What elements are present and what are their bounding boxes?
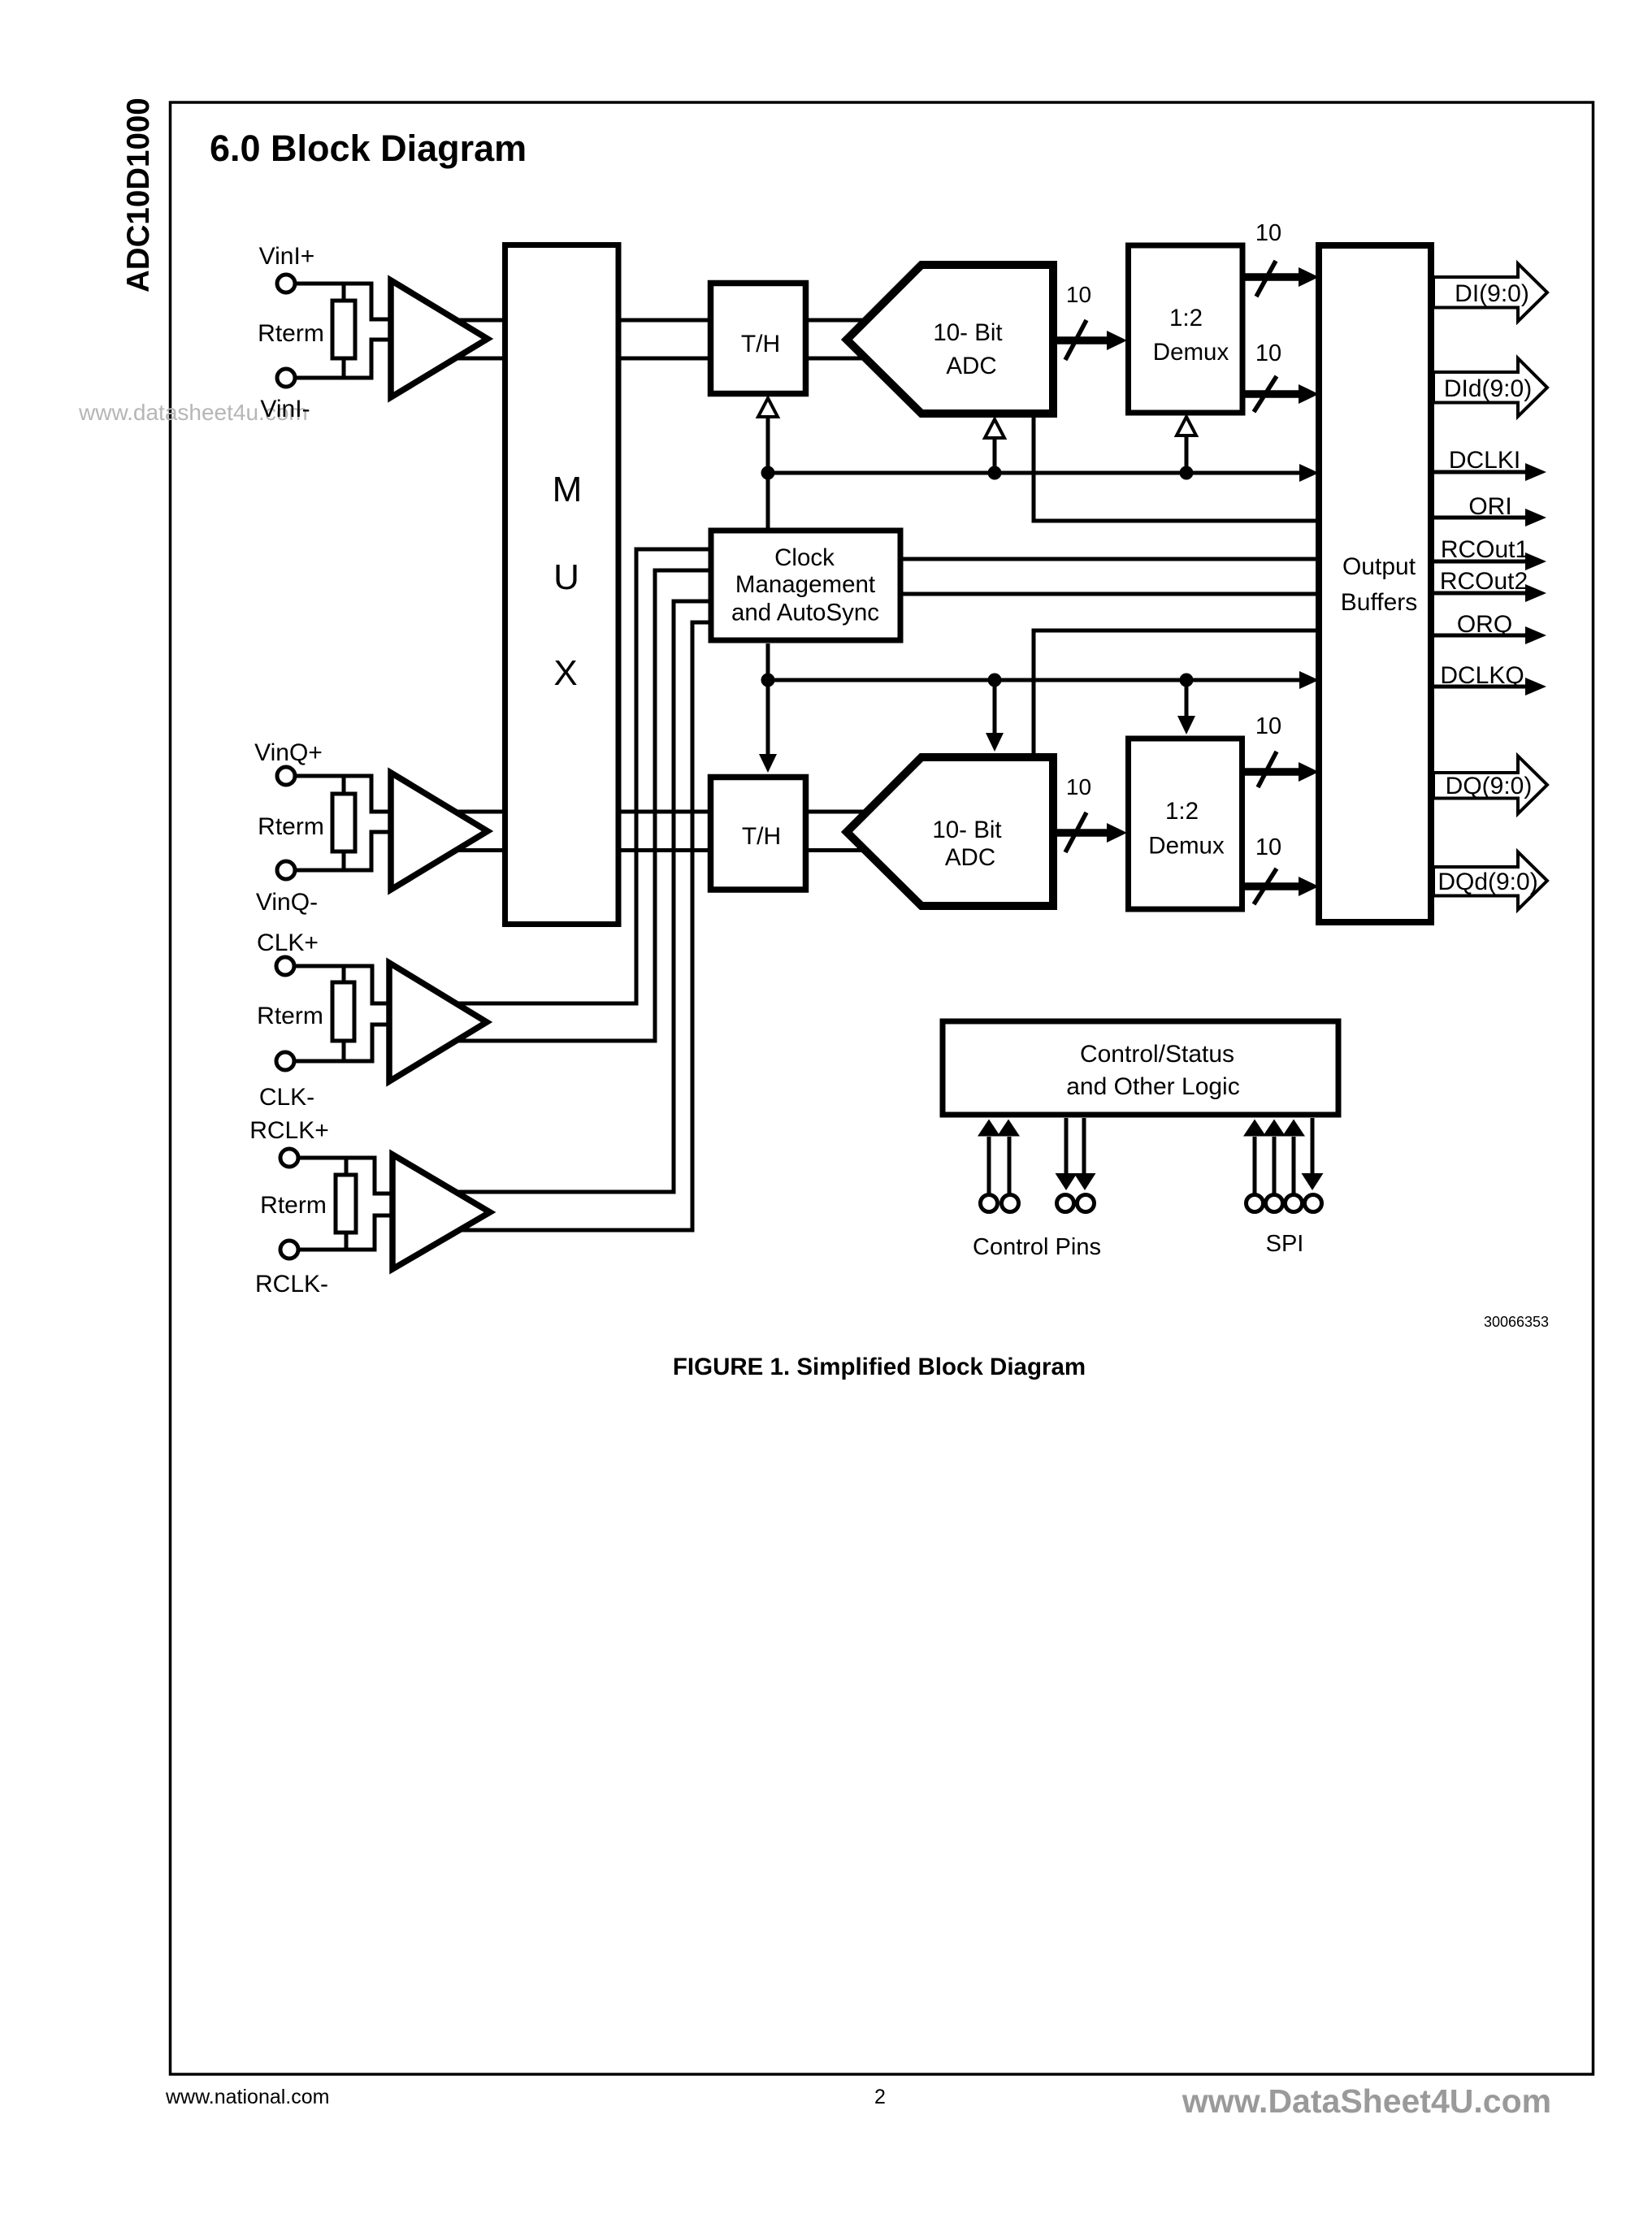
arrowhead ORQ output: [1525, 626, 1546, 644]
resistor R1 Rterm (VinI): [332, 301, 355, 358]
wire Rterm R4 bottom lead: [345, 1233, 349, 1250]
svg-text:ADC: ADC: [946, 353, 996, 379]
arrowhead clock into Demux Q: [1177, 716, 1195, 734]
svg-text:Rterm: Rterm: [257, 1003, 323, 1029]
terminal RCLK-: [280, 1241, 298, 1259]
arrowhead bus into Demux Q: [1107, 823, 1127, 843]
arrowhead Demux Q lower bus into OB: [1299, 877, 1319, 896]
svg-text:10: 10: [1255, 220, 1281, 246]
wire Rterm R1 bottom lead: [342, 358, 346, 378]
svg-text:DCLKI: DCLKI: [1449, 447, 1520, 474]
svg-text:Output: Output: [1342, 553, 1416, 580]
terminal VinQ+: [277, 767, 295, 785]
wire SPI 1: [1253, 1137, 1257, 1194]
svg-text:RCOut1: RCOut1: [1441, 536, 1528, 563]
svg-text:10: 10: [1255, 713, 1281, 739]
wire VinQ- to buffer A2: [296, 832, 391, 870]
arrowhead clock into ADC I: [985, 419, 1004, 438]
wire ADC I clock branch: [993, 435, 997, 473]
slash Demux I upper: [1256, 261, 1276, 297]
watermark www.datasheet4u.com: [78, 400, 308, 425]
svg-text:VinI+: VinI+: [259, 243, 315, 270]
figure number 30066353: [1484, 1314, 1549, 1330]
svg-text:RCOut2: RCOut2: [1440, 568, 1528, 595]
node DCLKQ at Demux Q: [1180, 674, 1194, 687]
footer right www.DataSheet4U.com: [1182, 2082, 1551, 2120]
bus Demux Q out lower: [1242, 882, 1302, 890]
bus Demux I out upper: [1242, 273, 1302, 281]
wire RCLK buffer out lower to clock mgmt: [459, 622, 715, 1230]
arrowhead Demux Q upper bus into OB: [1299, 762, 1319, 782]
wire T/H I to ADC I lower: [807, 357, 865, 361]
svg-text:Rterm: Rterm: [258, 813, 324, 840]
svg-text:2: 2: [874, 2086, 886, 2108]
wire RCOut2 output: [1431, 591, 1527, 596]
WIRES-THIN: [295, 284, 1527, 1250]
svg-text:10: 10: [1255, 834, 1281, 860]
slash Demux Q lower: [1254, 869, 1277, 904]
terminal RCLK+: [280, 1149, 298, 1167]
wire Rterm R3 bottom lead: [342, 1041, 346, 1061]
svg-text:VinQ-: VinQ-: [256, 889, 318, 916]
wire control pin out 2: [1082, 1118, 1086, 1175]
buffer amp A2 (VinQ): [391, 773, 488, 890]
buffer amp A3 (CLK): [389, 963, 487, 1081]
svg-text:Control Pins: Control Pins: [973, 1234, 1101, 1260]
svg-text:1:2: 1:2: [1165, 798, 1199, 825]
wire CLK buffer out upper to clock mgmt: [453, 549, 715, 1003]
pad SPI 4: [1305, 1195, 1322, 1212]
svg-text:30066353: 30066353: [1484, 1314, 1549, 1330]
arrowhead bus into Demux I: [1107, 331, 1127, 350]
svg-text:CLK+: CLK+: [257, 929, 319, 956]
sidebar part number ADC10D1000: [121, 97, 156, 292]
ARROWHEADS-OPEN (I-channel clock): [758, 398, 1196, 438]
svg-text:Demux: Demux: [1153, 339, 1229, 366]
wire T/H I to ADC I upper: [807, 318, 865, 323]
svg-text:RCLK+: RCLK+: [249, 1117, 329, 1144]
wire ADC Q clock branch: [993, 680, 997, 735]
wire ORQ output: [1431, 634, 1527, 638]
bus ADC I to Demux I: [1057, 336, 1110, 344]
svg-text:10- Bit: 10- Bit: [933, 319, 1002, 346]
svg-text:RCLK-: RCLK-: [255, 1271, 328, 1298]
wire buffer A1 out lower to MUX: [453, 357, 504, 361]
wire clock mgmt to T/H Q clock: [766, 643, 770, 756]
arrowhead Demux I lower bus into OB: [1299, 384, 1319, 404]
section title: [210, 128, 527, 169]
Clock Management and AutoSync block: [711, 531, 900, 640]
arrowhead SPI 1: [1243, 1120, 1266, 1137]
node DCLKI at Demux I: [1180, 466, 1194, 480]
MUX block: [505, 245, 619, 925]
wire SPI 2: [1273, 1137, 1277, 1194]
arrowhead clock into T/H Q: [759, 754, 777, 773]
arrowhead DCLKQ into OB: [1299, 671, 1319, 689]
bus Demux Q out upper: [1242, 768, 1302, 776]
wire MUX to T/H Q lower: [618, 848, 709, 852]
pad control 1: [981, 1195, 998, 1212]
wire RCLK- to buffer A4: [299, 1215, 392, 1250]
terminal VinI-: [277, 369, 295, 387]
wire DCLKQ distribution: [768, 678, 1299, 682]
svg-text:DI(9:0): DI(9:0): [1455, 280, 1529, 307]
arrowhead clock into ADC Q: [986, 733, 1004, 752]
Demux Q block: [1129, 739, 1242, 909]
output arrow DId(9:0): [1433, 358, 1547, 417]
T/H I block: [711, 284, 806, 394]
wire T/H Q to ADC Q upper: [807, 810, 865, 814]
resistor R3 Rterm (CLK): [332, 982, 354, 1041]
svg-text:DCLKQ: DCLKQ: [1440, 662, 1524, 689]
wire ORI from ADC I to output buffers: [1034, 418, 1319, 521]
svg-text:U: U: [553, 557, 579, 597]
svg-text:Buffers: Buffers: [1341, 589, 1418, 616]
wire buffer A2 out lower to MUX: [453, 848, 504, 852]
BUSES-THICK: [1057, 277, 1302, 886]
output arrow DQ(9:0): [1433, 756, 1547, 814]
wire control pin in 1: [987, 1137, 991, 1194]
svg-text:10: 10: [1066, 774, 1091, 799]
Control/Status block: [943, 1021, 1338, 1115]
svg-text:Management: Management: [735, 571, 875, 598]
svg-text:M: M: [553, 470, 583, 509]
svg-text:Rterm: Rterm: [260, 1192, 327, 1219]
wire Rterm R2 top lead: [342, 776, 346, 794]
svg-text:CLK-: CLK-: [259, 1084, 314, 1111]
wire ORQ from ADC Q to output buffers: [1034, 630, 1319, 754]
arrowhead ORI output: [1525, 509, 1546, 526]
wire T/H Q to ADC Q lower: [807, 848, 865, 852]
wire DCLKI output: [1431, 470, 1527, 474]
caption FIGURE 1: [673, 1354, 1086, 1380]
buffer amp A1 (VinI): [391, 280, 488, 397]
output arrow DI(9:0): [1433, 264, 1547, 322]
node DCLKI at T/H I: [761, 466, 775, 480]
footer left www.national.com: [165, 2086, 329, 2108]
svg-text:Rterm: Rterm: [258, 320, 324, 347]
wire control pin in 2: [1008, 1137, 1012, 1194]
resistor R2 Rterm (VinQ): [332, 794, 355, 851]
T/H Q block: [711, 778, 806, 890]
pad SPI 2: [1266, 1195, 1283, 1212]
wire Demux I clock branch: [1185, 432, 1189, 473]
page border frame: [171, 102, 1593, 2074]
wire CLK buffer out lower to clock mgmt: [452, 570, 715, 1041]
wire DCLKI distribution: [768, 471, 1299, 475]
node DCLKI at ADC I: [988, 466, 1002, 480]
ARROWHEADS-SOLID: [759, 267, 1546, 1190]
wire CLK+ to buffer A3: [295, 966, 389, 1003]
svg-text:DQd(9:0): DQd(9:0): [1437, 869, 1537, 895]
slash Demux Q upper: [1258, 752, 1277, 787]
pad control 3: [1057, 1195, 1074, 1212]
BUS SLASHES: [1065, 261, 1277, 904]
svg-text:10- Bit: 10- Bit: [932, 817, 1001, 843]
svg-text:X: X: [553, 653, 577, 693]
svg-text:10: 10: [1255, 340, 1281, 366]
arrowhead DCLKI into OB: [1299, 464, 1319, 482]
JUNCTION DOTS: [761, 466, 1194, 687]
SHAPES: [332, 245, 1547, 1270]
svg-text:VinQ+: VinQ+: [254, 739, 323, 766]
arrowhead control pin 2: [997, 1120, 1020, 1137]
terminal CLK-: [276, 1052, 294, 1070]
svg-text:1:2: 1:2: [1169, 305, 1203, 331]
TERMINALS: [276, 275, 1322, 1259]
svg-text:DQ(9:0): DQ(9:0): [1446, 773, 1533, 799]
bus ADC Q to Demux Q: [1057, 829, 1110, 837]
output arrow DQd(9:0): [1433, 852, 1547, 910]
wire Demux Q clock branch: [1185, 680, 1189, 718]
wire Rterm R3 top lead: [342, 966, 346, 982]
svg-text:10: 10: [1066, 282, 1091, 307]
node DCLKQ at ADC Q: [988, 674, 1002, 687]
arrowhead SPI 3: [1282, 1120, 1305, 1137]
slash bus ADC I: [1065, 320, 1086, 360]
wire Rterm R4 top lead: [345, 1158, 349, 1175]
Demux I block: [1129, 245, 1243, 413]
arrowhead RCOut1 output: [1525, 552, 1546, 570]
wire MUX to T/H I lower: [618, 357, 709, 361]
ADC Q pentagon: [847, 757, 1053, 906]
wire clock mgmt to T/H I clock: [766, 414, 770, 528]
svg-text:and AutoSync: and AutoSync: [731, 600, 879, 626]
svg-text:ORI: ORI: [1468, 493, 1511, 520]
pad SPI 3: [1286, 1195, 1303, 1212]
arrowhead SPI 4 down: [1302, 1173, 1324, 1190]
buffer amp A4 (RCLK): [392, 1155, 490, 1269]
wire control pin out 1: [1064, 1118, 1069, 1175]
pad control 2: [1002, 1195, 1019, 1212]
wire buffer A1 out upper to MUX: [455, 318, 504, 323]
wire DCLKQ output: [1431, 685, 1527, 689]
wire RCLK buffer out upper to clock mgmt: [457, 601, 715, 1192]
arrowhead control pin 4 down: [1074, 1173, 1096, 1190]
wire SPI 3: [1292, 1137, 1296, 1194]
terminal VinQ-: [277, 861, 295, 879]
slash Demux I lower: [1254, 376, 1277, 412]
pad control 4: [1077, 1195, 1095, 1212]
arrowhead clock into T/H I: [758, 398, 778, 417]
wire MUX to T/H I upper: [618, 318, 709, 323]
svg-text:Demux: Demux: [1148, 833, 1225, 860]
footer page number: [874, 2086, 886, 2108]
arrowhead clock into Demux I: [1177, 417, 1196, 435]
wire RCOut2 from clock mgmt: [903, 592, 1319, 596]
slash bus ADC Q: [1065, 812, 1086, 852]
wire CLK- to buffer A3: [295, 1025, 389, 1061]
wire RCOut1 output: [1431, 560, 1527, 564]
svg-text:SPI: SPI: [1266, 1231, 1304, 1257]
svg-text:ADC10D1000: ADC10D1000: [121, 97, 156, 292]
arrowhead SPI 2: [1263, 1120, 1286, 1137]
svg-text:and Other Logic: and Other Logic: [1066, 1073, 1239, 1100]
arrowhead DCLKI output: [1525, 463, 1546, 481]
svg-text:www.DataSheet4U.com: www.DataSheet4U.com: [1182, 2082, 1551, 2120]
wire VinQ+ to buffer A2: [296, 776, 391, 812]
pad SPI 1: [1247, 1195, 1264, 1212]
svg-text:FIGURE 1. Simplified Block Dia: FIGURE 1. Simplified Block Diagram: [673, 1354, 1086, 1380]
wire MUX to T/H Q upper: [618, 810, 709, 814]
wire VinI+ to buffer A1: [296, 284, 391, 319]
wire SPI 4: [1311, 1118, 1315, 1175]
terminal CLK+: [276, 957, 294, 975]
svg-text:Control/Status: Control/Status: [1080, 1041, 1234, 1068]
wire ORI output: [1431, 516, 1527, 520]
node DCLKQ at T/H Q: [761, 674, 775, 687]
arrowhead Demux I upper bus into OB: [1299, 267, 1319, 287]
wire RCLK+ to buffer A4: [299, 1158, 392, 1194]
arrowhead RCOut2 output: [1525, 584, 1546, 602]
wire Rterm R2 bottom lead: [342, 851, 346, 870]
svg-text:Clock: Clock: [774, 544, 835, 571]
wire RCOut1 from clock mgmt: [903, 557, 1319, 561]
wire VinI- to buffer A1: [296, 340, 391, 378]
bus Demux I out lower: [1242, 390, 1302, 398]
Output Buffers block: [1319, 245, 1431, 922]
svg-text:6.0 Block Diagram: 6.0 Block Diagram: [210, 128, 527, 169]
terminal VinI+: [277, 275, 295, 292]
svg-text:T/H: T/H: [742, 823, 781, 850]
arrowhead control pin 1: [978, 1120, 1000, 1137]
svg-text:T/H: T/H: [741, 331, 780, 357]
arrowhead control pin 3 down: [1056, 1173, 1077, 1190]
svg-text:www.national.com: www.national.com: [165, 2086, 329, 2108]
arrowhead DCLKQ output: [1525, 678, 1546, 695]
svg-text:ORQ: ORQ: [1457, 611, 1512, 638]
svg-text:VinI-: VinI-: [260, 396, 310, 422]
resistor R4 Rterm (RCLK): [336, 1175, 356, 1233]
wire buffer A2 out upper to MUX: [455, 810, 504, 814]
svg-text:DId(9:0): DId(9:0): [1444, 375, 1532, 402]
ADC I pentagon: [847, 265, 1053, 414]
wire Rterm R1 top lead: [342, 284, 346, 301]
svg-text:ADC: ADC: [945, 844, 995, 871]
